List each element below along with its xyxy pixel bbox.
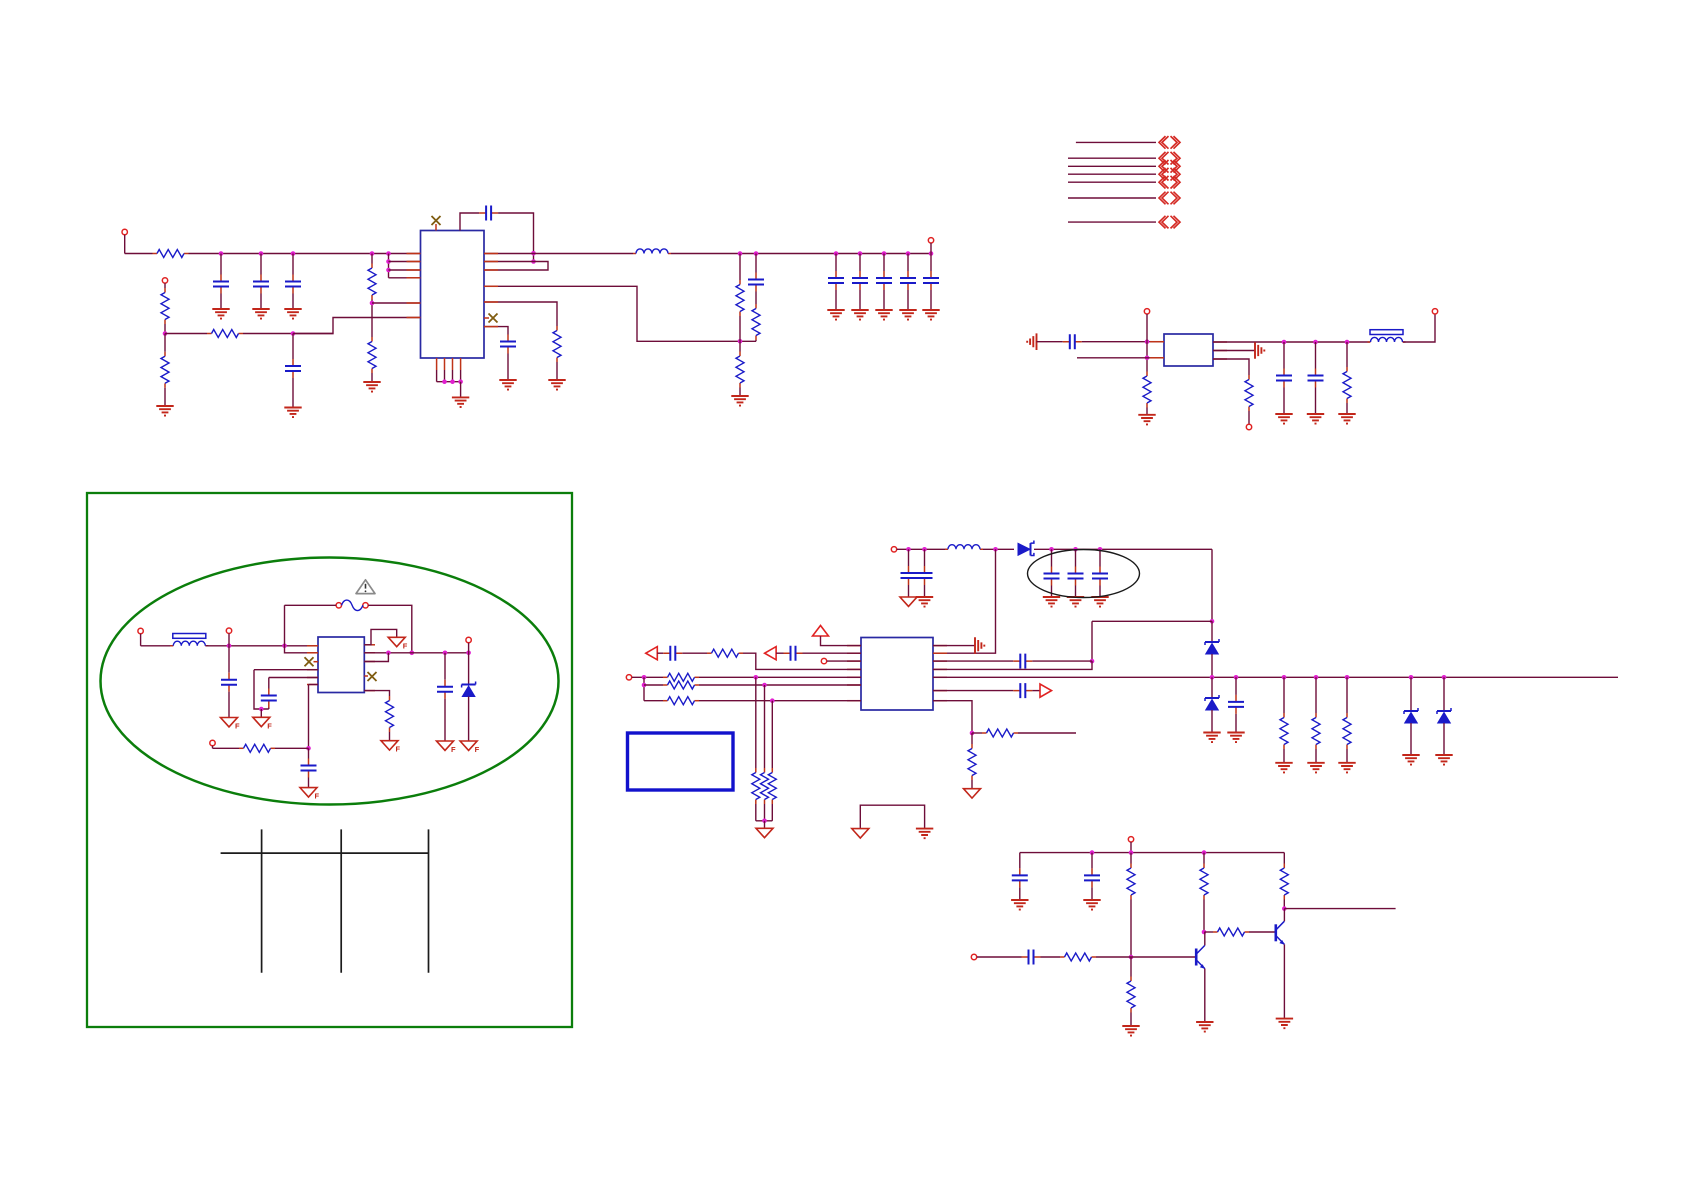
svg-text:F: F — [315, 792, 320, 801]
svg-text:F: F — [475, 745, 480, 754]
svg-text:F: F — [403, 641, 408, 650]
svg-text:F: F — [451, 745, 456, 754]
svg-text:F: F — [396, 745, 401, 754]
svg-text:F: F — [235, 722, 240, 731]
svg-text:F: F — [267, 721, 272, 730]
